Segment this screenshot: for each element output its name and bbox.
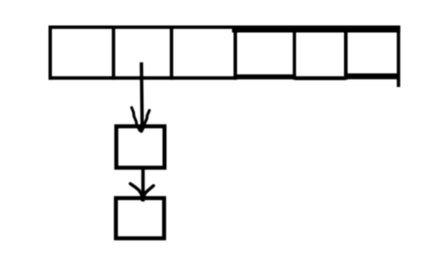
array row: divider between cell 5 and 6 [344,26,348,80]
array row: divider between cell 3 and 4 [234,26,238,80]
array row: divider between cell 1 and 2 [112,26,115,80]
array row: bottom edge bold segment (cell 6) [344,73,399,79]
node box 2 (bottom box) [116,198,164,238]
array row: right outer edge with tail extending below [397,26,400,88]
arrow 1 shaft: pointer from cell 2 down to first node [140,62,144,129]
arrow 1 left barb (jagged hand stroke) [132,108,140,131]
array row: divider between cell 4 and 5 [293,26,296,80]
array row: bottom edge thin segment (cells 1-3) [49,76,238,79]
node box 1 (middle box) [116,126,164,167]
array row: bottom edge bold segment (cell 4) [234,74,297,79]
array row: left outer edge [49,26,52,80]
arrow 1 right barb (jagged hand stroke) [142,110,150,131]
arrow 2 left barb (jagged hand stroke) [130,184,142,196]
arrow 2 shaft: link from node 1 down to node 2 [141,168,144,194]
arrow 2 tip blob [140,193,146,202]
arrow 1 tip blob [139,126,144,133]
array row: top edge thin segment (cells 1-3) [49,26,235,29]
array row: divider between cell 2 and 3 [170,26,173,80]
arrow 2 right barb (jagged hand stroke) [143,186,154,197]
array row: bold top edge over cells 4-6 [232,26,400,33]
array row: bottom edge thin segment (cell 5) [294,76,345,80]
